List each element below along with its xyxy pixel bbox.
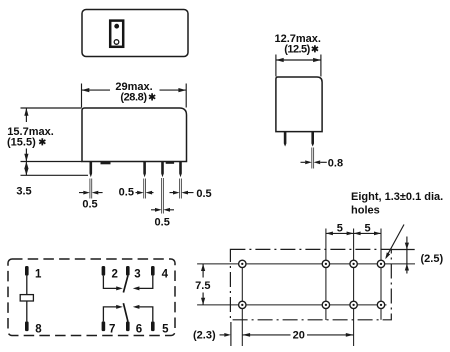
dimension 2.5: top tick line xyxy=(391,249,415,251)
schematic: coil bottom lead wire xyxy=(26,301,28,321)
svg-text:(15.5): (15.5) xyxy=(7,136,36,148)
svg-text:7: 7 xyxy=(109,324,115,336)
svg-text:7.5: 7.5 xyxy=(195,280,210,292)
dimension 0.8: arrows xyxy=(301,161,327,163)
svg-text:5: 5 xyxy=(364,222,370,234)
schematic: terminal pin 8 xyxy=(25,321,29,331)
front view: pin 4 xyxy=(179,162,182,178)
svg-text:3.5: 3.5 xyxy=(16,186,31,198)
schematic: bottom movable contact arm from pin 6 xyxy=(123,303,128,321)
svg-text:0.5: 0.5 xyxy=(82,198,97,210)
svg-text:5: 5 xyxy=(162,324,169,336)
svg-text:20: 20 xyxy=(293,330,305,342)
svg-text:0.5: 0.5 xyxy=(119,187,134,199)
pcb layout: top row centerline xyxy=(197,263,415,265)
schematic: pin 5 contact arrow xyxy=(133,305,140,309)
dimension 29max: right extension line xyxy=(185,84,187,108)
schematic: coil top lead wire xyxy=(26,276,28,295)
dimension 29max: asterisk star xyxy=(149,93,155,100)
schematic: dashed enclosure xyxy=(8,259,175,336)
schematic: terminal pin 6 xyxy=(126,321,130,331)
pcb layout: bottom row centerline xyxy=(197,304,386,306)
pcb layout: column 4 centerline xyxy=(380,229,382,320)
dimension 29max: left arrow xyxy=(82,89,111,91)
pcb layout: column 3 centerline xyxy=(353,229,355,347)
schematic: pin 2 contact arrow xyxy=(116,286,123,290)
front view: pin 2 xyxy=(143,162,146,178)
top view: actuator slot xyxy=(110,21,123,47)
schematic: terminal pin 7 xyxy=(102,321,106,331)
front view: bottom tab right xyxy=(166,162,174,164)
side view: relay body xyxy=(276,77,322,132)
dimension 2.5: arrow line xyxy=(406,237,408,274)
front view: pin 3 xyxy=(161,162,164,178)
side view: left pin xyxy=(284,132,287,147)
schematic: pin 4 contact arrow xyxy=(133,286,140,290)
schematic: coil L1 xyxy=(20,295,33,301)
svg-text:0.8: 0.8 xyxy=(328,157,343,169)
svg-text:3: 3 xyxy=(134,268,140,280)
pcb layout: hole 7 xyxy=(350,301,357,308)
svg-text:0.5: 0.5 xyxy=(196,188,211,200)
pcb layout: leader line to hole xyxy=(386,225,404,258)
side view: right pin xyxy=(311,132,314,147)
dimension 15.7max: asterisk star xyxy=(39,138,45,145)
dimension 12.7max: asterisk star xyxy=(312,45,318,52)
svg-text:(2.3): (2.3) xyxy=(193,330,216,342)
schematic: terminal pin 4 xyxy=(151,266,155,276)
dimension 2.3: arrow xyxy=(220,334,225,336)
pcb layout: hole 3 xyxy=(350,260,357,267)
dimension pin1 width 0.5: arrows xyxy=(79,192,103,194)
schematic: pin 7 contact arrow xyxy=(116,305,123,309)
schematic: pin 2 contact wire xyxy=(103,276,116,289)
schematic: terminal pin 2 xyxy=(102,266,106,276)
dimension 3.5: arrows xyxy=(25,162,27,176)
dimension pin4 width 0.5: arrows xyxy=(170,192,194,194)
pcb layout: hole 8 xyxy=(377,301,384,308)
svg-text:(2.5): (2.5) xyxy=(421,253,444,265)
dimension 7.5: dimension line with arrows xyxy=(202,264,204,305)
svg-text:(12.5): (12.5) xyxy=(284,44,310,56)
schematic: top movable contact arm from pin 3 xyxy=(123,276,128,293)
dimension 12.7max: left extension line xyxy=(275,55,277,77)
dimension 2.3: board edge extension line xyxy=(230,322,232,346)
dimension 12.7max: right extension line xyxy=(320,55,322,77)
svg-text:5: 5 xyxy=(337,222,343,234)
svg-text:2: 2 xyxy=(111,268,117,280)
schematic: terminal pin 5 xyxy=(151,321,155,331)
dimension 3.5: pin tip reference line xyxy=(21,174,89,176)
svg-text:6: 6 xyxy=(136,324,142,336)
front view: pin 2 width projection lines xyxy=(144,179,146,199)
schematic: pin 5 contact wire xyxy=(139,307,153,322)
svg-text:8: 8 xyxy=(35,324,42,336)
dimension 5-5: dimension line with arrows xyxy=(326,232,381,234)
pcb layout: hole 6 xyxy=(322,301,329,308)
svg-text:4: 4 xyxy=(162,268,169,280)
pcb layout: hole 5 xyxy=(239,301,246,308)
svg-text:1: 1 xyxy=(35,268,42,280)
dimension pin2 width 0.5: arrows xyxy=(136,192,154,194)
svg-text:Eight, 1.3±0.1 dia.: Eight, 1.3±0.1 dia. xyxy=(351,191,443,203)
front view: bottom tab left xyxy=(101,162,111,165)
dimension 12.7max: dimension line with arrows xyxy=(276,59,321,61)
svg-text:holes: holes xyxy=(351,205,380,217)
front view: pin 4 width projection lines xyxy=(180,179,182,199)
schematic: pin 4 contact wire xyxy=(139,276,153,289)
pcb layout: column 1 centerline xyxy=(241,264,243,346)
front view: relay body xyxy=(82,108,187,162)
side view: right pin width projection lines xyxy=(312,148,314,169)
top view: relay body outline xyxy=(82,10,188,57)
svg-text:(28.8): (28.8) xyxy=(120,91,147,103)
dimension 15.7max: dimension line with arrows xyxy=(25,108,27,162)
dimension 15.7max: top extension line xyxy=(21,107,82,109)
top view: filled pivot dot xyxy=(114,24,119,29)
schematic: terminal pin 1 xyxy=(25,266,29,276)
front view: pin 1 xyxy=(90,162,93,178)
front view: pin 3 width projection lines xyxy=(162,178,164,214)
front view: pin 1 width projection lines xyxy=(90,179,92,199)
dimension 29max: left extension line xyxy=(81,84,83,108)
dimension 15.7max: bottom extension line xyxy=(21,161,83,163)
dimension 29max: right arrow xyxy=(160,89,187,91)
svg-text:0.5: 0.5 xyxy=(155,216,170,228)
pcb layout: hole 2 xyxy=(322,260,329,267)
pcb layout: hole 1 xyxy=(239,260,246,267)
schematic: pin 7 contact wire xyxy=(103,307,116,322)
pcb layout: column 2 centerline xyxy=(325,229,327,321)
dimension 20: dimension line with arrows xyxy=(242,334,353,336)
pcb layout: board outline dash-dot xyxy=(230,249,391,319)
pcb layout: hole 4 xyxy=(377,260,384,267)
dimension pin3 width 0.5: arrows xyxy=(151,209,174,211)
top view: open hole xyxy=(114,40,119,45)
schematic: terminal pin 3 xyxy=(126,266,130,276)
